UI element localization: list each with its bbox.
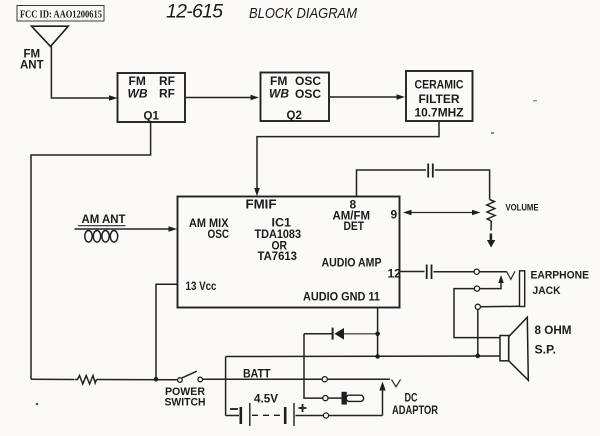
svg-text:13 Vcc: 13 Vcc — [186, 279, 217, 293]
svg-text:9: 9 — [391, 208, 398, 222]
resistor R1 — [75, 376, 97, 385]
battery rail contact A (open circle) on BATT wire — [322, 377, 327, 382]
scan speck — [36, 403, 39, 406]
svg-text:4.5V: 4.5V — [254, 394, 278, 406]
svg-text:DET: DET — [344, 219, 365, 233]
capacitor C2 — [427, 265, 432, 280]
wire switch contact to speaker (left and down) — [454, 289, 500, 338]
wire sleeve contact down to ground rail — [477, 309, 479, 355]
svg-text:OSC: OSC — [295, 87, 321, 101]
svg-text:AUDIO GND 11: AUDIO GND 11 — [303, 290, 380, 304]
wire pin 12 to capacitor C2 — [400, 271, 425, 273]
POWER SWITCH label — [165, 386, 206, 409]
bottom rail resistor to switch — [97, 379, 178, 381]
wire sleeve contact to jack body — [480, 305, 519, 308]
capacitor C1 — [428, 164, 433, 178]
pin 9 wiper arrow (double headed) — [403, 210, 481, 215]
earphone jack body — [520, 271, 525, 307]
8 OHM S.P. label — [535, 323, 572, 357]
svg-text:FILTER: FILTER — [419, 94, 461, 106]
scan speck — [533, 100, 537, 102]
AM antenna coil L1 — [85, 231, 118, 243]
FM ANT label — [20, 49, 44, 72]
FM antenna — [32, 26, 69, 46]
jack sleeve contact (open circle) — [475, 304, 480, 309]
svg-text:Q1: Q1 — [144, 111, 160, 123]
svg-text:OSC: OSC — [295, 74, 321, 88]
jack tip contact (open circle) — [474, 269, 479, 274]
wire diode to DC jack center contact — [304, 334, 323, 398]
bottom rail contact A to V mark — [327, 378, 390, 380]
svg-text:DC: DC — [405, 393, 418, 405]
wire tip contact to jack spring — [479, 271, 506, 273]
AM ANT label — [78, 214, 126, 226]
svg-text:10.7MHZ: 10.7MHZ — [415, 108, 464, 120]
ceramic filter block — [406, 71, 473, 121]
block Q1 (FM/WB RF) — [118, 73, 186, 123]
wire Q1 to Q2 — [185, 95, 259, 101]
svg-text:AM ANT: AM ANT — [82, 214, 126, 226]
jack spring contact V — [507, 271, 516, 279]
wire pin 11 (AUDIO GND) down — [377, 308, 379, 357]
wire pin 13 Vcc to power switch junction — [156, 284, 178, 379]
junction sleeve/ground rail — [476, 354, 481, 359]
svg-text:12: 12 — [388, 267, 402, 281]
power switch S1 — [178, 371, 203, 382]
svg-text:FCC ID: AAO1200615: FCC ID: AAO1200615 — [20, 10, 102, 21]
bottom rail switch to DC adaptor — [203, 378, 323, 380]
svg-text:VOLUME: VOLUME — [506, 203, 539, 214]
DC jack center contact (open circle) — [323, 396, 328, 401]
DC adaptor plug P1 — [342, 392, 364, 405]
wire switch contact with up arrow — [480, 275, 504, 289]
bottom rail left segment — [31, 378, 75, 380]
svg-text:AUDIO AMP: AUDIO AMP — [322, 256, 382, 270]
svg-text:WB: WB — [269, 87, 289, 101]
junction diode / pin 11 wire — [375, 332, 380, 337]
wire pin 8 to capacitor C1 — [357, 170, 427, 197]
EARPHONE JACK label — [531, 270, 590, 298]
battery B1 4.5V — [226, 403, 324, 426]
battery + contact C (open circle) — [323, 413, 328, 418]
svg-text:BATT: BATT — [243, 367, 271, 381]
speaker SP1 (8 ohm) — [500, 317, 528, 380]
wire AM coil to IC (AM MIX input) — [75, 226, 178, 232]
ground rail battery to speaker — [226, 355, 500, 358]
wire contact to plug — [328, 397, 342, 399]
svg-text:SWITCH: SWITCH — [165, 397, 206, 409]
junction Vcc / bottom rail — [154, 377, 159, 382]
svg-text:WB: WB — [128, 87, 148, 101]
wire Q1 output down the left side — [31, 122, 151, 379]
svg-text:OSC: OSC — [208, 227, 230, 241]
block Q2 (FM/WB OSC) — [261, 73, 330, 123]
wire ceramic filter to FMIF input — [254, 121, 439, 196]
svg-text:CERAMIC: CERAMIC — [415, 80, 464, 92]
scan speck — [491, 132, 494, 134]
svg-text:ANT: ANT — [20, 60, 44, 72]
wire Q2 to ceramic filter — [329, 94, 405, 100]
svg-text:RF: RF — [159, 87, 175, 101]
DC ADAPTOR label — [392, 393, 439, 418]
wire battery + to DC adaptor arrow — [329, 415, 383, 417]
DC adaptor arrow up — [379, 382, 385, 416]
svg-text:JACK: JACK — [533, 285, 561, 297]
svg-text:12-615: 12-615 — [166, 1, 223, 23]
IC1 TDA1083 / TA7613 block — [178, 197, 402, 308]
junction pin 11 / ground rail — [375, 354, 380, 359]
DC adaptor V mark — [392, 380, 401, 387]
volume potentiometer R2 — [487, 200, 496, 248]
battery plus sign — [299, 404, 307, 412]
svg-text:8 OHM: 8 OHM — [535, 323, 572, 337]
svg-text:S.P.: S.P. — [535, 343, 557, 357]
svg-text:BLOCK DIAGRAM: BLOCK DIAGRAM — [249, 5, 357, 22]
svg-text:EARPHONE: EARPHONE — [531, 270, 590, 282]
svg-text:TA7613: TA7613 — [258, 249, 298, 263]
wire capacitor C2 to earphone jack tip contact — [434, 271, 475, 273]
svg-text:ADAPTOR: ADAPTOR — [392, 405, 439, 417]
diode D1 — [304, 328, 376, 340]
battery minus sign — [230, 408, 238, 410]
svg-text:Q2: Q2 — [287, 110, 302, 122]
wire ground rail down to battery minus — [225, 357, 227, 416]
jack switch contact (open circle) — [474, 286, 479, 291]
FCC ID label box — [17, 6, 104, 22]
wire capacitor C1 to volume pot — [435, 170, 490, 200]
wire FM antenna to Q1 — [51, 46, 117, 100]
svg-text:FMIF: FMIF — [246, 198, 277, 212]
